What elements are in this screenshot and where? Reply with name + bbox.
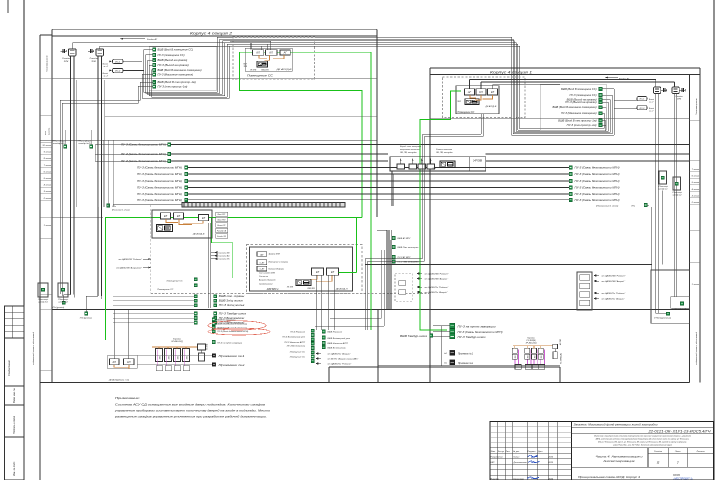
svg-text:1 этаж: 1 этаж xyxy=(692,284,700,286)
svg-text:АГ: АГ xyxy=(283,51,288,55)
svg-text:ПУ-З Эл/щ жилья: ПУ-З Эл/щ жилья xyxy=(219,305,246,307)
svg-text:УВВ-ЗУВ: УВВ-ЗУВ xyxy=(307,288,315,290)
svg-text:ИС-2: ИС-2 xyxy=(115,71,121,73)
svg-text:ПУ-З Водомерный узел: ПУ-З Водомерный узел xyxy=(282,336,305,339)
svg-text:ПУ-З (помещение СС): ПУ-З (помещение СС) xyxy=(158,54,185,57)
svg-text:ПУ-З (Выход на кровлю): ПУ-З (Выход на кровлю) xyxy=(158,64,189,67)
svg-text:Подпись: Подпись xyxy=(528,451,536,453)
svg-text:шлейф №1: шлейф №1 xyxy=(38,301,47,304)
svg-text:Кол.уч: Кол.уч xyxy=(498,451,504,453)
svg-text:ПУ-З Пом. консьержа: ПУ-З Пом. консьержа xyxy=(398,262,420,264)
svg-text:АУ-ЗУВ: АУ-ЗУВ xyxy=(559,338,562,346)
svg-text:ЗУМ: ЗУМ xyxy=(91,61,96,63)
svg-text:Завесы клапанов: Завесы клапанов xyxy=(436,149,452,151)
svg-text:ДК АСУД-В (сек. СС): ДК АСУД-В (сек. СС) xyxy=(108,379,129,382)
svg-text:Вход РУ1: Вход РУ1 xyxy=(218,213,226,216)
svg-text:ВШВ (Вход В помещение СС): ВШВ (Вход В помещение СС) xyxy=(561,88,597,91)
svg-text:Корпус 4 секция 1: Корпус 4 секция 1 xyxy=(490,71,532,75)
svg-text:ООО: ООО xyxy=(673,473,681,477)
svg-text:Разъём: Разъём xyxy=(62,58,70,60)
svg-text:Разъём СВ: Разъём СВ xyxy=(217,230,227,232)
svg-text:от ЦАОВ-П6В “Аварий.”: от ЦАОВ-П6В “Аварий.” xyxy=(602,280,626,283)
svg-text:(АГ6), инженерными сетями и бл: (АГ6), инженерными сетями и благоустройс… xyxy=(595,438,689,441)
svg-text:Сигналы ЗВ: Сигналы ЗВ xyxy=(219,253,231,255)
svg-text:Короб: элек. контроль: Короб: элек. контроль xyxy=(400,146,421,148)
svg-text:УЗ-ЗУВ(СЦВ): УЗ-ЗУВ(СЦВ) xyxy=(561,353,563,364)
svg-text:от ЦАОВ-П1х “Аварий.”: от ЦАОВ-П1х “Аварий.” xyxy=(602,298,626,301)
svg-text:6 этаж: 6 этаж xyxy=(692,176,700,178)
svg-text:ВШВ Вентжалюзи: ВШВ Вентжалюзи xyxy=(328,347,347,349)
svg-text:КЛ: КЛ xyxy=(316,270,320,274)
svg-text:8 этаж: 8 этаж xyxy=(44,158,52,160)
svg-text:ДК АСУД-В: ДК АСУД-В xyxy=(275,68,292,71)
svg-text:управления приборами соответст: управления приборами соответствует колич… xyxy=(114,408,271,412)
svg-text:КР-ВШ-10/Д: КР-ВШ-10/Д xyxy=(171,341,183,343)
svg-text:С-ВУ: С-ВУ xyxy=(260,262,265,264)
svg-text:Сигналы ПС: Сигналы ПС xyxy=(219,259,231,261)
svg-text:УПв: УПв xyxy=(112,206,116,208)
svg-text:7 этаж: 7 этаж xyxy=(692,169,700,171)
svg-text:ГАП: ГАП xyxy=(490,461,494,464)
svg-text:от ЦАОВ-П6В “Аварий.”: от ЦАОВ-П6В “Аварий.” xyxy=(425,278,449,281)
svg-text:Согласовано: Согласовано xyxy=(7,360,11,376)
svg-text:ВШВ пож. охраны: ВШВ пож. охраны xyxy=(219,296,245,298)
svg-text:КЛ: КЛ xyxy=(113,360,117,364)
svg-text:№1: №1 xyxy=(444,352,447,355)
svg-text:КЛ: КЛ xyxy=(479,90,483,94)
svg-text:ПУ-З (Связь безопасности МГН): ПУ-З (Связь безопасности МГН) xyxy=(575,166,620,170)
svg-text:Часть 4. Автоматизация и: Часть 4. Автоматизация и xyxy=(596,455,643,459)
svg-text:от ЦАОВ-П1х “Рабочее”: от ЦАОВ-П1х “Рабочее” xyxy=(602,292,626,295)
svg-text:ЗУМ: ЗУМ xyxy=(677,99,681,101)
svg-text:Разработал: Разработал xyxy=(491,457,504,459)
svg-text:ПУ-З (Связь безопасности МГН): ПУ-З (Связь безопасности МГН) xyxy=(137,179,182,183)
svg-text:ВШВ (Вход В помещение СС): ВШВ (Вход В помещение СС) xyxy=(158,49,194,52)
svg-text:7 этаж: 7 этаж xyxy=(44,165,52,167)
svg-text:подвальный этаж с обесточкой: подвальный этаж с обесточкой xyxy=(695,331,698,365)
svg-text:ПУ-З (Связь безопасности МГН): ПУ-З (Связь безопасности МГН) xyxy=(575,198,620,202)
svg-text:шлейф №2: шлейф №2 xyxy=(673,194,682,197)
svg-text:Подпись и дата: Подпись и дата xyxy=(13,415,16,434)
svg-text:шлейф №1: шлейф №1 xyxy=(659,188,668,191)
svg-text:от ЦАОВ-П6В “Рабочее”: от ЦАОВ-П6В “Рабочее” xyxy=(602,275,626,278)
svg-text:22-0121-ОК-.01У1-13-ИОС5.4/ГЧ: 22-0121-ОК-.01У1-13-ИОС5.4/ГЧ xyxy=(647,430,711,434)
svg-text:Сигн. раздел ЗУМ: Сигн. раздел ЗУМ xyxy=(259,272,275,275)
svg-text:УПв (granica): УПв (granica) xyxy=(52,307,65,309)
svg-text:ПУ-З (Связь безопасности МГН): ПУ-З (Связь безопасности МГН) xyxy=(575,186,620,190)
svg-text:6 этаж: 6 этаж xyxy=(44,171,52,173)
svg-text:Feeder АГ: Feeder АГ xyxy=(147,38,158,41)
svg-text:7: 7 xyxy=(677,461,679,465)
svg-text:ПУ-З (Вход безопасности МГН): ПУ-З (Вход безопасности МГН) xyxy=(217,330,248,333)
svg-text:Принципиальная схема АСУД. Кор: Принципиальная схема АСУД. Корпус 4 xyxy=(578,475,641,479)
svg-text:Помещение СС: Помещение СС xyxy=(157,289,173,291)
svg-text:Примечание:: Примечание: xyxy=(115,396,140,400)
svg-text:5 этаж: 5 этаж xyxy=(44,178,52,180)
svg-text:Лист: Лист xyxy=(506,451,510,453)
svg-text:3 этаж: 3 этаж xyxy=(44,191,52,193)
svg-text:УПатч(корд: УПатч(корд xyxy=(78,140,92,143)
svg-text:Сигнал на: Сигнал на xyxy=(259,276,268,278)
svg-text:2 этаж: 2 этаж xyxy=(43,198,52,200)
svg-text:ВШВ Водомерный узел: ВШВ Водомерный узел xyxy=(328,337,351,340)
svg-text:шлейф №2): шлейф №2) xyxy=(79,142,91,145)
svg-text:КЛ: КЛ xyxy=(491,90,495,94)
svg-text:4 этаж: 4 этаж xyxy=(44,184,52,187)
svg-text:ПУ-З Тамбур-шлюз: ПУ-З Тамбур-шлюз xyxy=(458,337,486,339)
svg-text:УЗ-ЗУВ: УЗ-ЗУВ xyxy=(207,343,209,350)
svg-text:ВШВ (Вход В машинное помещение: ВШВ (Вход В машинное помещение) xyxy=(158,69,202,72)
svg-text:Заказчик: Московский фонд рено: Заказчик: Московский фонд реновации жило… xyxy=(574,423,659,427)
svg-text:УПм (кровля): УПм (кровля) xyxy=(672,309,689,311)
svg-text:1 этаж: 1 этаж xyxy=(44,225,52,227)
svg-text:Приемник №к: Приемник №к xyxy=(458,362,474,365)
svg-text:Кодовая Информ.: Кодовая Информ. xyxy=(269,268,285,271)
svg-text:Помещение СС: Помещение СС xyxy=(167,281,183,283)
svg-text:Срабатывание: Срабатывание xyxy=(259,284,273,286)
svg-text:Помещение СС: Помещение СС xyxy=(290,352,306,354)
svg-text:Приемник №к: Приемник №к xyxy=(219,364,247,367)
svg-text:КЛ: КЛ xyxy=(127,360,131,364)
svg-text:КЛ: КЛ xyxy=(164,214,168,218)
svg-text:ВШВ АТ МПУ: ВШВ АТ МПУ xyxy=(398,237,412,240)
svg-text:от ЦАОВ-П1х “Рабочее”: от ЦАОВ-П1х “Рабочее” xyxy=(425,286,449,289)
svg-text:ПУ-З (Машинное помещение): ПУ-З (Машинное помещение) xyxy=(158,73,194,76)
svg-text:ПУ-З (Связь безопасности МГН): ПУ-З (Связь безопасности МГН) xyxy=(137,172,182,176)
svg-text:ВШВ (Вход В тех.простр.-1м): ВШВ (Вход В тех.простр.-1м) xyxy=(158,81,196,84)
svg-text:Лист: Лист xyxy=(674,451,681,453)
svg-text:Аварийн. Вариант: Аварийн. Вариант xyxy=(258,279,276,282)
svg-text:размещения шкафов управления у: размещения шкафов управления уточняется … xyxy=(114,414,267,418)
svg-text:2023: 2023 xyxy=(548,462,554,464)
svg-text:КЛ: КЛ xyxy=(270,51,274,55)
svg-text:С-ВУ: С-ВУ xyxy=(260,269,265,271)
svg-text:Зуммер ЗУМ: Зуммер ЗУМ xyxy=(269,254,281,256)
svg-text:от ЦАОВ-П6В “Рабочее”: от ЦАОВ-П6В “Рабочее” xyxy=(425,273,449,276)
svg-text:ПУ-З Насосная: ПУ-З Насосная xyxy=(290,332,306,334)
svg-text:УПв (granica): УПв (granica) xyxy=(80,318,93,320)
svg-text:9 этаж: 9 этаж xyxy=(44,152,52,154)
svg-text:УПатч-корд: УПатч-корд xyxy=(58,298,68,301)
svg-text:ЗУМ: ЗУМ xyxy=(64,61,69,63)
svg-text:шлейф №2: шлейф №2 xyxy=(58,301,67,304)
svg-text:4 этаж: 4 этаж xyxy=(692,188,700,191)
svg-text:ПУ-З (Связь безопасности МГН): ПУ-З (Связь безопасности МГН) xyxy=(137,166,182,170)
svg-text:ПУ-З (помещение СС): ПУ-З (помещение СС) xyxy=(570,94,597,97)
svg-text:ИС-1: ИС-1 xyxy=(115,62,121,64)
svg-text:ПУ-З (Связь безопасности МГН): ПУ-З (Связь безопасности МГН) xyxy=(575,172,620,176)
svg-text:УВВ-ЗУВ: УВВ-ЗУВ xyxy=(261,69,269,71)
svg-text:Разъём: Разъём xyxy=(90,58,98,60)
svg-text:Приемник №1: Приемник №1 xyxy=(458,353,474,356)
svg-text:ВШВ (Выход на кровлю): ВШВ (Выход на кровлю) xyxy=(158,59,188,62)
svg-text:район Ново-Пер., инв. №ГУ (Зап: район Ново-Пер., инв. №ГУ (Зап. Западный… xyxy=(612,443,672,446)
svg-text:3 этаж: 3 этаж xyxy=(692,195,700,197)
svg-text:ДК АСУД-В: ДК АСУД-В xyxy=(192,233,205,236)
svg-text:ПУ-З (Связь безопасности МГН): ПУ-З (Связь безопасности МГН) xyxy=(575,192,620,196)
svg-text:от ЦАОВ-П1х “Рабочая”: от ЦАОВ-П1х “Рабочая” xyxy=(328,363,352,366)
svg-text:КЛ: КЛ xyxy=(202,216,206,220)
svg-text:Техэтаж кровля: Техэтаж кровля xyxy=(696,98,698,115)
svg-text:Извещение с пожарки: Извещение с пожарки xyxy=(269,262,289,264)
svg-text:ВШВ Эл/щ жилья: ВШВ Эл/щ жилья xyxy=(219,301,244,303)
svg-text:ПУ-З Насосная АУПТ: ПУ-З Насосная АУПТ xyxy=(284,341,305,344)
svg-text:ПУ-З (Связь безопасности МГН): ПУ-З (Связь безопасности МГН) xyxy=(458,332,503,334)
svg-text:ВШВ Насосная АУПТ: ВШВ Насосная АУПТ xyxy=(328,342,349,345)
svg-text:10 этаж: 10 этаж xyxy=(42,145,51,147)
svg-text:Помещение СС: Помещение СС xyxy=(247,75,273,78)
svg-text:ЛК ЗУВ: ЛК ЗУВ xyxy=(286,287,294,289)
svg-text:№к: №к xyxy=(444,362,447,365)
svg-text:диспетчеризация: диспетчеризация xyxy=(604,459,636,463)
svg-text:ДК АСУД-П: ДК АСУД-П xyxy=(335,288,348,291)
svg-text:УПм (granica): УПм (granica) xyxy=(654,318,671,320)
svg-text:ВШВ (Вход В тех.простр.-1м): ВШВ (Вход В тех.простр.-1м) xyxy=(558,119,596,122)
svg-text:Feeder СВ: Feeder СВ xyxy=(217,236,226,238)
svg-text:Выход РУ: Выход РУ xyxy=(217,224,226,227)
svg-text:Стадия: Стадия xyxy=(654,450,663,453)
svg-text:2 этаж: 2 этаж xyxy=(691,202,700,204)
svg-text:от ЦАОВ-П1х “Аварий.”: от ЦАОВ-П1х “Аварий.” xyxy=(425,291,449,294)
svg-text:ПУ-З (Связь безопасности МГН): ПУ-З (Связь безопасности МГН) xyxy=(137,198,182,202)
svg-text:УПатч(корд: УПатч(корд xyxy=(52,140,66,143)
svg-text:Изм.: Изм. xyxy=(491,451,496,453)
svg-text:Коробка: Коробка xyxy=(173,339,182,341)
svg-text:5 этаж: 5 этаж xyxy=(692,182,700,184)
svg-text:ПУ-З (Связь безопасности МГН): ПУ-З (Связь безопасности МГН) xyxy=(137,186,182,190)
svg-text:Вход РУ2: Вход РУ2 xyxy=(218,219,226,222)
svg-text:ПУ-З на путях эвакуации: ПУ-З на путях эвакуации xyxy=(458,327,497,329)
svg-text:УПв: УПв xyxy=(631,205,635,207)
svg-text:ПУ-З (Связь безопасности МГН): ПУ-З (Связь безопасности МГН) xyxy=(137,192,182,196)
svg-text:Приемник №1: Приемник №1 xyxy=(219,355,246,358)
svg-text:ПУ-З (тех.простр.-1м): ПУ-З (тех.простр.-1м) xyxy=(567,124,597,127)
svg-text:(Подвальный 1 этаж): (Подвальный 1 этаж) xyxy=(596,204,618,207)
svg-text:КЛ: КЛ xyxy=(177,214,181,218)
svg-text:от ВУ-НС “Аварий насоса АВС”: от ВУ-НС “Аварий насоса АВС” xyxy=(328,358,359,361)
svg-text:ВШВ Пом. консьержа: ВШВ Пом. консьержа xyxy=(398,247,420,249)
svg-text:Помещение СС: Помещение СС xyxy=(458,112,475,114)
svg-text:№ док.: № док. xyxy=(513,450,520,453)
svg-text:Техэтаж кровля: Техэтаж кровля xyxy=(47,55,49,72)
svg-text:подвальный этаж с обесточкой: подвальный этаж с обесточкой xyxy=(32,331,35,365)
svg-text:(Подв.ном 1 этаж): (Подв.ном 1 этаж) xyxy=(112,208,130,211)
svg-text:УРЗВ: УРЗВ xyxy=(473,160,483,163)
svg-text:КЛ: КЛ xyxy=(331,270,335,274)
svg-text:КЛ: КЛ xyxy=(256,51,260,55)
svg-text:ПУ-З (Машинное помещение): ПУ-З (Машинное помещение) xyxy=(561,112,597,115)
svg-text:Система АСУ СД оснащается все: Система АСУ СД оснащается все входные дв… xyxy=(115,402,266,406)
svg-text:Долгопятова: Долгопятова xyxy=(513,462,528,464)
svg-text:простр.: простр. xyxy=(49,127,51,135)
svg-text:ПУ-З (Связь безопасности МГН): ПУ-З (Связь безопасности МГН) xyxy=(575,179,620,183)
svg-text:ВШВ Насосная: ВШВ Насосная xyxy=(328,332,343,334)
svg-text:тех.: тех. xyxy=(45,130,47,135)
svg-text:ПУ-З Вентжалюзи: ПУ-З Вентжалюзи xyxy=(287,346,306,348)
svg-text:КР-ВШ-10/Д: КР-ВШ-10/Д xyxy=(526,343,537,345)
svg-text:Листов: Листов xyxy=(696,451,706,453)
svg-text:ОВ, ПВ, опалубка: ОВ, ПВ, опалубка xyxy=(400,152,417,154)
svg-text:ПУ-З (Выход на кровлю): ПУ-З (Выход на кровлю) xyxy=(565,101,596,104)
svg-text:4/5, ул. Федосьино, 4/5, корп.: 4/5, ул. Федосьино, 4/5, корп.1, ул. Фед… xyxy=(598,440,687,443)
svg-text:Помещение СС: Помещение СС xyxy=(290,357,306,359)
svg-text:Кипин: Кипин xyxy=(514,457,521,459)
svg-text:Корпус 4 секция 2: Корпус 4 секция 2 xyxy=(190,31,232,35)
svg-text:ИС-1: ИС-1 xyxy=(640,99,645,101)
svg-text:ПУ-З (тех.простр.-1м): ПУ-З (тех.простр.-1м) xyxy=(158,85,188,88)
svg-text:ДК АСУД-В: ДК АСУД-В xyxy=(485,105,497,108)
svg-text:Сигналы Вм: Сигналы Вм xyxy=(219,256,231,258)
svg-text:УПатч-корд: УПатч-корд xyxy=(38,298,48,301)
svg-text:АГ: АГ xyxy=(467,90,472,94)
svg-text:от ЦАОВ-П/В “Рабочее”: от ЦАОВ-П/В “Рабочее” xyxy=(118,258,142,261)
svg-text:2023: 2023 xyxy=(548,457,554,459)
svg-text:ВШВ Тамбур-шлюз: ВШВ Тамбур-шлюз xyxy=(400,336,427,338)
svg-text:Жилой дом с пристроенными нежи: Жилой дом с пристроенными нежилыми помещ… xyxy=(593,435,692,438)
svg-text:от ЦАОВ-П/В “Аварийное”: от ЦАОВ-П/В “Аварийное” xyxy=(116,267,142,270)
svg-text:от ЦАОВ-П1х “Аварий.”: от ЦАОВ-П1х “Аварий.” xyxy=(328,353,352,356)
svg-text:ПУ-З Тамбур-шлюз: ПУ-З Тамбур-шлюз xyxy=(219,314,246,316)
svg-text:ОВ, ПВ, опалубка: ОВ, ПВ, опалубка xyxy=(436,152,453,154)
svg-text:ВШВ Вход/Выход В обесточку: ВШВ Вход/Выход В обесточку xyxy=(217,323,248,326)
svg-text:Взам. инв. №: Взам. инв. № xyxy=(13,388,16,403)
svg-text:ВШВ (Вход В машинное помещение: ВШВ (Вход В машинное помещение) xyxy=(553,106,597,109)
svg-text:Инв. № подл.: Инв. № подл. xyxy=(13,461,16,476)
svg-text:открытия клапанов: открытия клапанов xyxy=(400,149,419,151)
svg-text:ЛК ЗУВ: ЛК ЗУВ xyxy=(249,69,257,71)
svg-text:Feeder АГ: Feeder АГ xyxy=(619,78,630,81)
svg-text:АВР ВРУ-1: АВР ВРУ-1 xyxy=(266,288,279,291)
svg-text:ПУ-З на путях эвакуации: ПУ-З на путях эвакуации xyxy=(217,342,243,344)
